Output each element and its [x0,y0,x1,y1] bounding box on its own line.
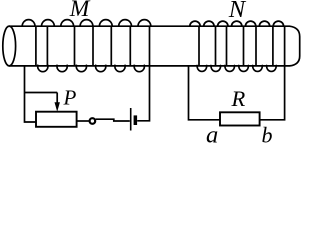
left circuit (coil M) [25,27,150,123]
wire: rheostat right to switch [77,120,90,122]
resistor R box [220,112,260,125]
right circuit (coil N) [189,27,285,120]
rheostat wiper arrowhead [55,102,60,112]
wire: M left lead down and to rheostat left terminal [25,66,37,122]
coil N turn verticals [199,27,273,67]
svg-text:N: N [228,0,247,23]
wire: N left lead down to resistor [189,66,221,120]
battery long plate [130,108,132,131]
tube left end ellipse [3,26,16,66]
svg-text:a: a [206,122,218,144]
coil M bottom loops [38,65,145,72]
wire: branch to wiper arrow [25,92,58,94]
svg-text:b: b [262,123,273,145]
svg-text:M: M [69,0,91,22]
battery short thick plate [134,115,138,125]
coil M turn verticals [36,27,130,67]
rheostat wiper arrow stem [56,93,58,103]
wire: battery to M right lead up [137,27,149,121]
wire: resistor to N right lead up [260,27,285,120]
switch lever [96,119,130,121]
iron core tube body [9,26,300,66]
switch circle [90,118,96,124]
coil M top loops [22,20,151,27]
coil N top loops [190,21,284,26]
svg-text:P: P [63,86,77,110]
rheostat P box [36,112,77,127]
svg-text:R: R [231,86,246,111]
coil N bottom loops [197,65,276,72]
